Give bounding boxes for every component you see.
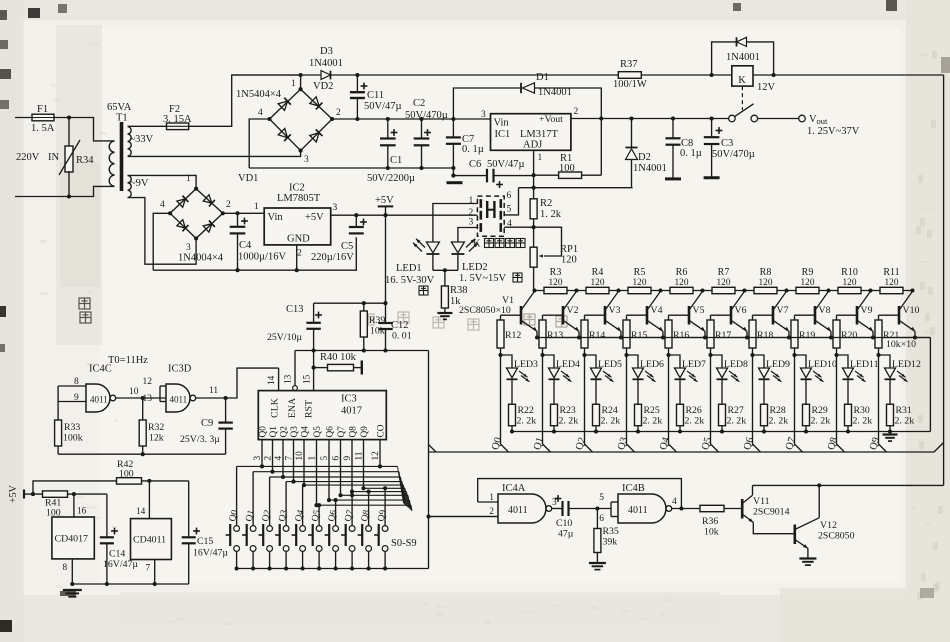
transistor V7 2SC8050 xyxy=(772,306,775,325)
gate IC3D 4011 xyxy=(166,384,190,412)
pushbutton S0 xyxy=(234,526,240,532)
svg-text:V4: V4 xyxy=(651,305,663,316)
svg-text:S0-S9: S0-S9 xyxy=(391,538,417,549)
svg-text:IC4C: IC4C xyxy=(89,364,112,375)
wire +5V to R42 rail xyxy=(33,481,116,494)
wire emitter rail to LED return rail xyxy=(929,338,931,432)
wire timing rail upper xyxy=(314,302,386,304)
wire 33V winding bottom to VD2 node 3 xyxy=(128,151,301,157)
svg-text:C4: C4 xyxy=(239,240,252,251)
svg-text:R35: R35 xyxy=(603,526,619,537)
svg-text:R11: R11 xyxy=(883,267,899,278)
pushbutton S8 xyxy=(366,526,372,532)
resistor R29 2.2k xyxy=(805,379,807,404)
transformer T1 secondary 33V winding xyxy=(128,127,132,157)
wire IC3 Q3 pin to level xyxy=(293,440,295,482)
svg-text:R28: R28 xyxy=(770,405,786,416)
svg-text:R39: R39 xyxy=(369,315,385,326)
wire IC4C output to IC3D input xyxy=(116,397,166,399)
transistor V9 2SC8050 xyxy=(856,306,859,325)
pushbutton S5 xyxy=(316,526,322,532)
svg-text:R33: R33 xyxy=(64,422,80,433)
svg-text:~9V: ~9V xyxy=(130,178,149,189)
ic CD4011 xyxy=(131,519,172,560)
svg-text:R8: R8 xyxy=(760,267,772,278)
resistor R13 10k base xyxy=(543,314,564,316)
wire level line 2 xyxy=(270,476,401,478)
wire level line 8 xyxy=(329,499,410,501)
svg-text:3: 3 xyxy=(186,243,191,253)
wire switch common to IC4A input2 xyxy=(429,516,499,518)
svg-text:120: 120 xyxy=(561,255,577,266)
svg-text:V12: V12 xyxy=(820,520,837,531)
wire K pin4 to R2 bottom node xyxy=(504,226,533,228)
svg-text:C6: C6 xyxy=(469,159,481,170)
svg-text:2: 2 xyxy=(336,108,341,118)
svg-text:C12: C12 xyxy=(391,320,409,331)
svg-text:LED10: LED10 xyxy=(808,359,837,370)
resistor R2 1.2k xyxy=(533,188,535,200)
capacitor C9 25V/3.3u xyxy=(225,398,227,423)
resistor R5 120 xyxy=(628,287,651,293)
svg-text:R25: R25 xyxy=(644,405,660,416)
svg-text:50V/470µ: 50V/470µ xyxy=(405,110,448,121)
ground under V12 xyxy=(799,557,816,559)
wire F1 to transformer xyxy=(54,118,115,141)
transistor V3 2SC8050 xyxy=(604,306,607,325)
LED9 indicator xyxy=(753,355,765,368)
capacitor C5 220u/16V xyxy=(354,213,358,217)
pushbutton S2 xyxy=(267,526,273,532)
wire oscillator feedback rail xyxy=(58,453,226,455)
resistor R38 1k xyxy=(444,270,446,286)
resistor R9 120 xyxy=(796,287,819,293)
svg-text:2. 2k: 2. 2k xyxy=(853,416,873,427)
svg-text:0. 01: 0. 01 xyxy=(392,331,412,342)
resistor R35 39k xyxy=(596,509,598,529)
svg-text:5: 5 xyxy=(599,493,604,503)
svg-text:D1: D1 xyxy=(536,72,549,83)
svg-text:LED2: LED2 xyxy=(462,262,488,273)
resistor R4 120 xyxy=(586,287,609,293)
svg-text:R26: R26 xyxy=(686,405,702,416)
svg-text:V8: V8 xyxy=(819,305,831,316)
pin 15 RST stub xyxy=(313,351,315,391)
ground symbol logic xyxy=(63,589,82,591)
transistor V1 2SC8050 xyxy=(520,306,523,325)
transistor V5 2SC8050 xyxy=(688,306,691,325)
wire K pin3 to LED2 xyxy=(458,228,478,243)
node Q3 branch xyxy=(624,353,628,357)
capacitor C4 1000u/16V xyxy=(235,211,239,215)
transistor V6 2SC8050 xyxy=(730,306,733,325)
wire Vin to D1 xyxy=(453,88,521,119)
transformer T1 core xyxy=(120,122,124,191)
svg-text:R12: R12 xyxy=(505,330,521,341)
wire main unregulated rail xyxy=(332,118,490,120)
svg-text:1N4001: 1N4001 xyxy=(309,58,343,69)
svg-text:120: 120 xyxy=(717,278,731,288)
node Q0 branch xyxy=(498,353,502,357)
svg-text:+Vout: +Vout xyxy=(539,114,563,125)
capacitor C2 50V/470u xyxy=(419,117,423,121)
wire top auxiliary rail xyxy=(232,74,944,76)
wire IC2 GND pin xyxy=(296,245,298,270)
svg-text:+5V: +5V xyxy=(305,212,324,223)
svg-text:Q7: Q7 xyxy=(337,426,347,438)
svg-text:CD4017: CD4017 xyxy=(55,534,89,545)
node Q4 branch xyxy=(666,353,670,357)
svg-text:T0=11Hz: T0=11Hz xyxy=(108,355,148,366)
wire Q1 column to bus xyxy=(543,355,551,452)
svg-text:LED11: LED11 xyxy=(850,359,879,370)
svg-text:2: 2 xyxy=(226,200,231,210)
svg-text:IC3D: IC3D xyxy=(168,364,192,375)
pushbutton S7 xyxy=(349,526,355,532)
svg-text:Q6: Q6 xyxy=(325,426,335,438)
ground under C8 xyxy=(665,177,681,180)
svg-text:39k: 39k xyxy=(603,537,618,548)
wire IC3 Q8 pin long drop xyxy=(351,440,353,492)
wire Q7 column to bus xyxy=(795,355,803,452)
resistor R7 120 xyxy=(712,287,735,293)
wire level line 5 xyxy=(364,487,406,489)
svg-text:Q1: Q1 xyxy=(269,426,279,438)
svg-text:V5: V5 xyxy=(693,305,705,316)
wire IC3 Q2 pin to level xyxy=(282,440,284,477)
svg-text:25V/3. 3µ: 25V/3. 3µ xyxy=(180,434,220,445)
svg-text:50V/470µ: 50V/470µ xyxy=(712,149,755,160)
svg-text:1: 1 xyxy=(291,79,296,89)
resistor R19 10k base xyxy=(795,314,816,316)
svg-text:R22: R22 xyxy=(518,405,534,416)
wire Q9 column to bus xyxy=(879,355,887,452)
svg-text:16V/47µ: 16V/47µ xyxy=(193,548,228,559)
svg-text:D3: D3 xyxy=(320,46,333,57)
wire ADJ node line xyxy=(519,187,633,189)
svg-text:4011: 4011 xyxy=(508,505,528,516)
LED1 indicator xyxy=(426,242,439,253)
svg-text:1N4004×4: 1N4004×4 xyxy=(178,253,224,264)
svg-text:R32: R32 xyxy=(148,422,164,433)
wire 33V winding to F2 xyxy=(128,125,167,127)
flyback diode 1N4001 across relay xyxy=(712,42,774,75)
svg-text:1N4001: 1N4001 xyxy=(633,163,667,174)
svg-text:2: 2 xyxy=(469,208,474,218)
svg-text:GND: GND xyxy=(287,234,310,245)
svg-text:ADJ: ADJ xyxy=(523,140,542,151)
svg-text:100: 100 xyxy=(559,163,575,174)
LED2 indicator xyxy=(451,242,464,253)
node Q7 branch xyxy=(792,353,796,357)
resistor R1 100 xyxy=(534,174,559,176)
LED8 indicator xyxy=(711,355,723,368)
svg-text:R31: R31 xyxy=(896,405,912,416)
wire +5V feed down to timing network xyxy=(385,215,387,323)
svg-text:C10: C10 xyxy=(556,518,572,529)
wire IC1 ADJ pin down xyxy=(533,150,535,187)
wire stub switch S6 xyxy=(335,500,337,525)
svg-text:12: 12 xyxy=(143,377,153,387)
node Q1 branch xyxy=(540,353,544,357)
resistor R18 10k base xyxy=(753,314,774,316)
svg-text:2SC8050: 2SC8050 xyxy=(818,531,855,542)
transistor V4 2SC8050 xyxy=(646,306,649,325)
wire IC3 Q6 pin long drop xyxy=(328,440,330,501)
fuse F2 xyxy=(167,123,189,130)
svg-text:2. 2k: 2. 2k xyxy=(895,416,915,427)
svg-text:2. 2k: 2. 2k xyxy=(685,416,705,427)
svg-text:120: 120 xyxy=(549,278,563,288)
svg-text:C1: C1 xyxy=(390,155,402,166)
wire resistor chain line xyxy=(534,290,913,292)
wire Q6 column to bus xyxy=(753,355,761,452)
svg-text:R17: R17 xyxy=(715,330,731,341)
resistor R16 10k base xyxy=(669,314,690,316)
wire vertical bus right of IC3 xyxy=(428,351,430,569)
svg-text:100/1W: 100/1W xyxy=(613,79,647,90)
svg-text:13: 13 xyxy=(143,394,153,404)
gate IC4B 4011 xyxy=(618,494,666,523)
svg-text:15: 15 xyxy=(302,374,312,384)
svg-text:0. 1µ: 0. 1µ xyxy=(680,148,702,159)
wire level line 3 xyxy=(286,481,402,483)
wire Q5 column to bus xyxy=(711,355,719,452)
svg-text:1N4001: 1N4001 xyxy=(726,52,760,63)
decorative watermark characters xyxy=(363,314,374,325)
svg-text:LM7805T: LM7805T xyxy=(277,193,321,204)
wire Q8 column to bus xyxy=(837,355,845,452)
wire bus chamfer to right edge xyxy=(934,443,944,453)
svg-text:R38: R38 xyxy=(450,285,468,296)
node junction F1/R34 xyxy=(67,115,71,119)
svg-text:C11: C11 xyxy=(367,90,384,101)
svg-text:1N5404×4: 1N5404×4 xyxy=(236,89,282,100)
svg-text:50V/47µ: 50V/47µ xyxy=(487,159,525,170)
node Q8 branch xyxy=(834,353,838,357)
pushbutton S1 xyxy=(250,526,256,532)
wire emitter common rail xyxy=(537,337,930,339)
svg-text:4: 4 xyxy=(672,497,677,507)
wire drop to switch S0 xyxy=(236,466,238,525)
svg-text:RP1: RP1 xyxy=(560,244,578,255)
svg-text:R9: R9 xyxy=(802,267,814,278)
resistor R26 2.2k xyxy=(679,379,681,404)
svg-text:1. 5V~15V: 1. 5V~15V xyxy=(459,273,507,284)
node chain junction 5 xyxy=(700,288,704,292)
resistor R20 10k base xyxy=(837,314,858,316)
wire IC3 Q1 pin to level xyxy=(272,440,274,472)
wire VD2 node4 to ground rail xyxy=(249,119,269,168)
svg-text:16: 16 xyxy=(77,507,87,517)
regulator IC2 LM7805T xyxy=(264,208,331,245)
svg-text:1. 2k: 1. 2k xyxy=(540,209,562,220)
svg-text:14: 14 xyxy=(136,507,146,517)
range switch K dashed box xyxy=(477,196,504,236)
svg-text:11: 11 xyxy=(209,386,218,396)
svg-text:LED1: LED1 xyxy=(396,263,422,274)
svg-text:IC3: IC3 xyxy=(341,394,357,405)
capacitor C10 47u xyxy=(561,501,563,516)
svg-text:1: 1 xyxy=(489,493,494,503)
wire K pin1 to LED1 xyxy=(433,204,478,243)
svg-text:IC4A: IC4A xyxy=(502,483,526,494)
resistor R22 2.2k xyxy=(511,379,513,404)
svg-text:R37: R37 xyxy=(620,59,638,70)
wire drop to switch S3 xyxy=(285,482,287,526)
wire CD4017 pin8 to ground xyxy=(71,559,73,584)
svg-text:IC1: IC1 xyxy=(495,129,511,140)
wire F2 to top rail xyxy=(189,75,301,126)
svg-text:2: 2 xyxy=(574,107,579,117)
resistor R41 100 xyxy=(43,491,68,497)
node Q6 branch xyxy=(750,353,754,357)
svg-text:Vin: Vin xyxy=(494,118,510,129)
resistor R40 10k with stub plate xyxy=(312,366,316,370)
resistor R24 2.2k xyxy=(595,379,597,404)
svg-text:C9: C9 xyxy=(201,418,213,429)
capacitor C12 0.01 xyxy=(378,322,392,324)
wire regulated output rail xyxy=(571,118,729,120)
svg-text:R2: R2 xyxy=(540,198,552,209)
svg-text:Q5: Q5 xyxy=(313,426,323,438)
resistor R33 100k xyxy=(57,402,59,421)
resistor R8 120 xyxy=(754,287,777,293)
resistor R17 10k base xyxy=(711,314,732,316)
gate IC4C 4011 xyxy=(86,384,110,412)
resistor R14 10k base xyxy=(585,314,606,316)
resistor R23 2.2k xyxy=(553,379,555,404)
wire level line 6 xyxy=(352,491,407,493)
resistor R36 10k xyxy=(700,505,724,511)
svg-text:2. 2k: 2. 2k xyxy=(769,416,789,427)
svg-text:16V/47µ: 16V/47µ xyxy=(103,559,138,570)
svg-text:~33V: ~33V xyxy=(130,134,154,145)
svg-text:R15: R15 xyxy=(631,330,647,341)
svg-text:R7: R7 xyxy=(718,267,730,278)
svg-text:4011: 4011 xyxy=(170,395,188,405)
LED3 indicator xyxy=(501,355,513,368)
svg-text:C3: C3 xyxy=(721,138,733,149)
ic CD4017 xyxy=(52,517,94,559)
svg-text:R14: R14 xyxy=(589,330,605,341)
svg-text:2. 2k: 2. 2k xyxy=(727,416,747,427)
LED6 indicator xyxy=(627,355,639,368)
wire Q4 column to bus xyxy=(669,355,677,452)
svg-text:8: 8 xyxy=(74,377,79,387)
svg-text:3: 3 xyxy=(304,155,309,165)
svg-text:25V/10µ: 25V/10µ xyxy=(267,332,302,343)
potentiometer RP1 120 xyxy=(533,227,535,247)
LED5 indicator xyxy=(585,355,597,368)
wire feedback loop xyxy=(478,479,682,509)
resistor R11 120 xyxy=(880,287,903,293)
node junction R34 bottom xyxy=(67,194,71,198)
svg-text:14: 14 xyxy=(267,375,277,385)
svg-text:R40 10k: R40 10k xyxy=(320,352,357,363)
svg-text:120: 120 xyxy=(633,278,647,288)
transistor V10 2SC8050 xyxy=(898,306,901,325)
node chain junction 7 xyxy=(784,288,788,292)
wire VD1 node2 to IC2 Vin xyxy=(223,212,264,214)
svg-text:LED3: LED3 xyxy=(514,359,538,370)
wire drop to switch S1 xyxy=(252,472,254,526)
svg-text:out: out xyxy=(817,116,829,126)
LED12 indicator xyxy=(879,355,891,368)
node relay left xyxy=(710,73,714,77)
resistor R21 10k base xyxy=(879,314,900,316)
svg-text:120: 120 xyxy=(843,278,857,288)
svg-text:9: 9 xyxy=(74,393,79,403)
resistor R32 12k xyxy=(142,398,144,420)
svg-text:3: 3 xyxy=(481,110,486,120)
LED11 indicator xyxy=(837,355,849,368)
svg-text:R6: R6 xyxy=(676,267,688,278)
bridge rectifier VD2 1N5404x4 xyxy=(270,89,333,150)
svg-text:R18: R18 xyxy=(757,330,773,341)
capacitor C14 16V/47u xyxy=(106,494,108,537)
svg-text:220µ/16V: 220µ/16V xyxy=(311,252,354,263)
node chain junction 8 xyxy=(826,288,830,292)
wire level line 0 xyxy=(237,465,398,467)
svg-text:4: 4 xyxy=(258,108,263,118)
wire level line 4 xyxy=(303,484,404,486)
wire timing rail lower ENA RST xyxy=(295,350,429,352)
svg-text:4017: 4017 xyxy=(341,406,362,417)
LED7 indicator xyxy=(669,355,681,368)
svg-text:V11: V11 xyxy=(753,496,770,507)
svg-text:LED12: LED12 xyxy=(892,359,921,370)
svg-text:T1: T1 xyxy=(116,113,128,124)
node R32 tap xyxy=(141,396,145,400)
diode D3 1N4001 xyxy=(321,71,331,80)
svg-text:Q9: Q9 xyxy=(360,426,370,438)
svg-text:C13: C13 xyxy=(286,304,304,315)
wire IC3 Q4 pin to level xyxy=(303,440,305,486)
wire Q3 column to bus xyxy=(627,355,635,452)
resistor R12 10k base xyxy=(501,314,522,316)
svg-text:R29: R29 xyxy=(812,405,828,416)
wire low-voltage ground rail xyxy=(153,237,356,270)
node chain junction 10 xyxy=(910,288,914,292)
resistor R37 100/1W xyxy=(618,72,641,79)
node relay right xyxy=(772,73,776,77)
svg-text:RST: RST xyxy=(304,400,315,418)
wire 9V winding bottom to VD1 node3 xyxy=(128,198,197,265)
terminal Vout xyxy=(799,115,806,122)
node chain junction 2 xyxy=(574,288,578,292)
svg-text:CD4011: CD4011 xyxy=(133,535,166,546)
svg-text:2. 2k: 2. 2k xyxy=(811,416,831,427)
svg-text:4: 4 xyxy=(160,200,165,210)
power +5V symbol xyxy=(378,205,394,207)
node Q9 branch xyxy=(876,353,880,357)
ground under R35 xyxy=(589,562,606,564)
relay contact switch xyxy=(729,115,736,122)
diode D1 1N4001 xyxy=(520,83,522,93)
svg-text:1: 1 xyxy=(538,153,543,163)
ground at LED return rail xyxy=(883,433,898,435)
wire 220V line input top xyxy=(15,117,32,119)
svg-text:2SC9014: 2SC9014 xyxy=(753,507,790,518)
node chain junction 4 xyxy=(658,288,662,292)
svg-text:F1: F1 xyxy=(37,104,48,115)
wire emitter rail overlay xyxy=(537,337,930,339)
svg-text:+5V: +5V xyxy=(8,484,19,503)
svg-text:D2: D2 xyxy=(638,152,651,163)
svg-text:R20: R20 xyxy=(841,330,857,341)
wire IC3 CO pin drop xyxy=(379,440,381,467)
